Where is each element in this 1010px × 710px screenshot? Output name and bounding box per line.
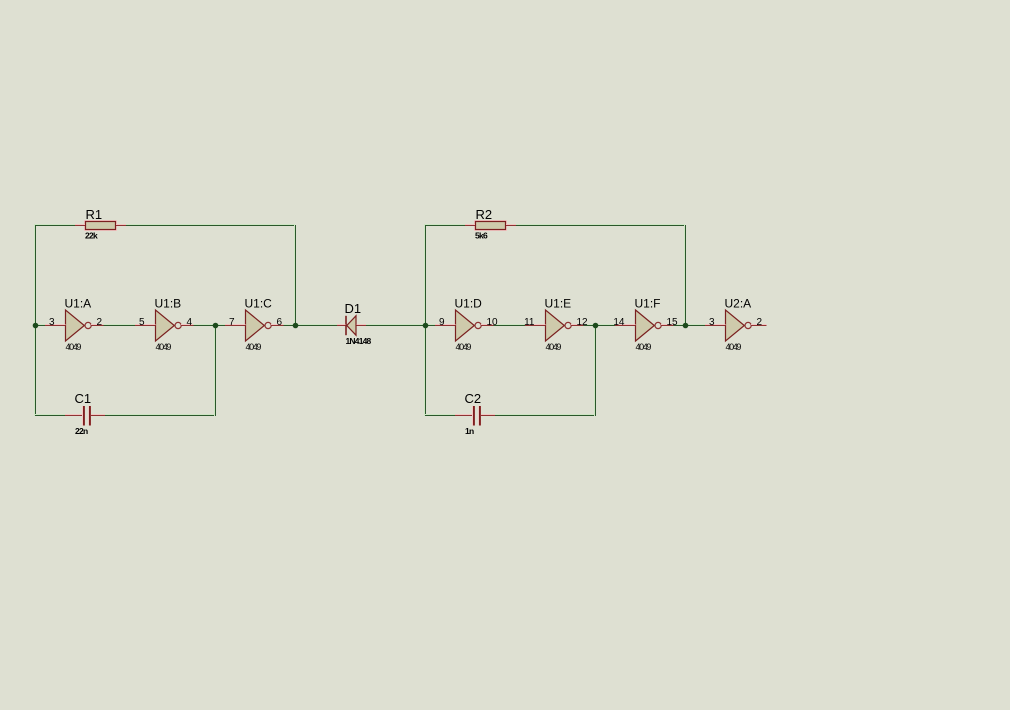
op-amp-style inverter gate U1:F (4049) body: [636, 310, 662, 341]
svg-text:4049: 4049: [66, 342, 82, 352]
svg-text:10: 10: [487, 317, 499, 328]
wire: U1:D output to U1:E input: [494, 325, 526, 326]
wire: left feedback rail vertical of oscillator 2 (U1:D input node): [425, 224, 426, 416]
wire: vertical drop from R2 rail to U1:F output node: [685, 225, 686, 325]
svg-text:R2: R2: [476, 207, 493, 222]
op-amp-style inverter gate U1:D (4049) body: [456, 310, 482, 341]
wire: left feedback rail vertical (node of U1:A input): [35, 224, 36, 416]
junction: U1:D input node: [423, 323, 429, 329]
wire: D1 anode to oscillator 2 input node: [366, 325, 435, 326]
junction: U1:B output / U1:C input node: [213, 323, 219, 329]
wire: input pin stub of U1:E: [525, 325, 546, 326]
wire: input pin stub of U1:B: [135, 325, 156, 326]
wire: U1:A input node to gate: [35, 325, 45, 326]
svg-text:15: 15: [667, 317, 679, 328]
wire: U1:A output to U1:B input: [104, 325, 136, 326]
svg-text:3: 3: [709, 317, 715, 328]
wire: bottom rail from osc2 rail to C2: [425, 415, 456, 416]
wire: U1:E output to U1:F input: [584, 325, 616, 326]
svg-text:2: 2: [757, 317, 763, 328]
svg-text:4049: 4049: [726, 342, 742, 352]
svg-text:U1:A: U1:A: [65, 297, 92, 311]
wire: right pin stub of C1: [91, 415, 106, 416]
svg-text:U1:D: U1:D: [455, 297, 483, 311]
wire: output pin stub of U1:F: [661, 325, 673, 326]
svg-text:4049: 4049: [456, 342, 472, 352]
wire: right pin stub of C2: [481, 415, 496, 416]
junction: U1:F output node: [683, 323, 689, 329]
svg-text:22n: 22n: [75, 426, 88, 436]
resistor R2: [475, 221, 507, 231]
op-amp-style inverter gate U1:B (4049) body: [156, 310, 182, 341]
wire: input pin stub of U1:D: [435, 325, 456, 326]
svg-text:4049: 4049: [546, 342, 562, 352]
wire: bottom rail from left rail to C1: [35, 415, 66, 416]
wire: top rail from left rail to R1: [35, 225, 75, 226]
svg-text:C2: C2: [465, 391, 482, 406]
wire: output pin stub of U1:A: [91, 325, 103, 326]
wire: left pin stub of R1: [75, 225, 85, 226]
svg-text:4049: 4049: [156, 342, 172, 352]
svg-text:2: 2: [97, 317, 103, 328]
svg-text:U1:E: U1:E: [545, 297, 572, 311]
wire: output pin stub of U1:C: [271, 325, 283, 326]
svg-text:R1: R1: [86, 207, 103, 222]
svg-text:3: 3: [49, 317, 55, 328]
wire: top rail from osc2 rail to R2: [425, 225, 465, 226]
capacitor C1: [83, 406, 91, 426]
wire: D1 cathode pin stub: [337, 325, 346, 326]
op-amp-style inverter gate U1:A (4049) body: [66, 310, 92, 341]
wire: input pin stub of U2:A: [705, 325, 726, 326]
wire: D1 anode pin stub: [357, 325, 367, 326]
svg-text:5: 5: [139, 317, 145, 328]
wire: vertical drop from R1 rail to U1:C output node: [295, 225, 296, 325]
svg-text:U2:A: U2:A: [725, 297, 752, 311]
wire: input pin stub of U1:F: [615, 325, 636, 326]
junction: U1:A input node: [33, 323, 39, 329]
svg-text:D1: D1: [345, 301, 362, 316]
resistor R1: [85, 221, 117, 231]
svg-text:U1:F: U1:F: [635, 297, 661, 311]
capacitor C2: [473, 406, 481, 426]
wire: C1 to mid-node vertical: [105, 415, 215, 416]
wire: input pin stub of U1:A: [45, 325, 66, 326]
svg-text:1N4148: 1N4148: [346, 336, 372, 346]
junction: U1:E output / U1:F input node: [593, 323, 599, 329]
wire: output pin stub of U1:D: [481, 325, 493, 326]
wire: R2 to U1:F output node: [516, 225, 685, 226]
wire: left pin stub of R2: [465, 225, 475, 226]
svg-text:4049: 4049: [636, 342, 652, 352]
svg-text:9: 9: [439, 317, 445, 328]
wire: U1:C output node to diode D1: [284, 325, 338, 326]
svg-text:14: 14: [613, 317, 625, 328]
svg-text:C1: C1: [75, 391, 92, 406]
svg-text:U1:B: U1:B: [155, 297, 182, 311]
op-amp-style inverter gate U1:E (4049) body: [546, 310, 572, 341]
svg-text:4049: 4049: [246, 342, 262, 352]
diode D1 (1N4148): [346, 316, 356, 335]
wire: U1:F output to U2:A input: [674, 325, 706, 326]
svg-text:1n: 1n: [465, 426, 474, 436]
junction: U1:C output node: [293, 323, 299, 329]
wire: input pin stub of U1:C: [225, 325, 246, 326]
wire: U1:B output to U1:C input: [194, 325, 226, 326]
svg-text:12: 12: [577, 317, 589, 328]
wire: C2 to mid-node vertical: [495, 415, 595, 416]
op-amp-style inverter gate U2:A (4049) body: [726, 310, 752, 341]
svg-text:7: 7: [229, 317, 235, 328]
op-amp-style inverter gate U1:C (4049) body: [246, 310, 272, 341]
wire: vertical from U1:E/U1:F node down to C2 rail: [595, 325, 596, 416]
wire: left pin stub of C1: [65, 415, 82, 416]
svg-text:4: 4: [187, 317, 193, 328]
wire: R1 to U1:C output node: [126, 225, 295, 226]
svg-text:U1:C: U1:C: [245, 297, 273, 311]
wire: output pin stub of U1:B: [181, 325, 193, 326]
svg-text:22k: 22k: [85, 230, 98, 240]
svg-text:6: 6: [277, 317, 283, 328]
svg-text:5k6: 5k6: [475, 230, 488, 240]
wire: left pin stub of C2: [455, 415, 472, 416]
svg-text:11: 11: [524, 317, 535, 328]
wire: output pin stub of U2:A: [751, 325, 766, 326]
wire: right pin stub of R2: [506, 225, 516, 226]
wire: right pin stub of R1: [116, 225, 126, 226]
wire: output pin stub of U1:E: [571, 325, 583, 326]
wire: vertical from U1:B/U1:C node down to C1 rail: [215, 325, 216, 416]
